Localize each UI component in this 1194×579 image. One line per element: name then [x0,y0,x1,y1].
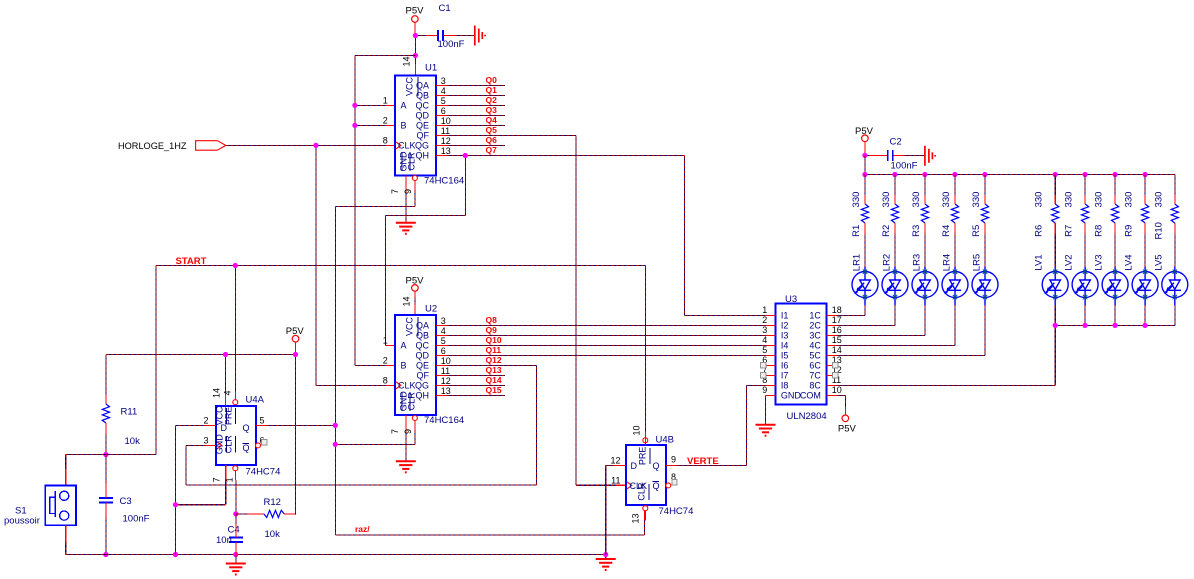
wire U1 Q7 to U3.I1 and U2.A [385,156,765,346]
svg-text:LR5: LR5 [972,254,983,271]
svg-text:Q5: Q5 [486,125,498,135]
svg-text:Q10: Q10 [486,335,502,345]
svg-text:14: 14 [211,388,221,398]
svg-text:Q3: Q3 [486,105,498,115]
wire LR1 bottom [864,306,866,316]
junction D-GND join [173,502,178,507]
wire LR2 bottom [894,306,896,326]
svg-text:4: 4 [441,86,446,96]
IC U4B 74HC74 box [615,435,694,521]
svg-text:QH: QH [416,390,430,400]
svg-text:11: 11 [611,476,620,486]
svg-text:LV1: LV1 [1034,254,1045,270]
junction U1.B [352,123,357,128]
svg-text:GND: GND [781,390,802,400]
wire R7 to LV2 [1084,234,1086,267]
LED LV4 [1124,254,1159,305]
svg-text:6: 6 [441,106,446,116]
svg-text:Q11: Q11 [486,345,502,355]
svg-text:10: 10 [441,116,451,126]
svg-text:7C: 7C [809,370,821,380]
svg-text:poussoir: poussoir [4,516,40,527]
svg-text:100nF: 100nF [123,514,150,525]
svg-text:C2: C2 [890,136,902,147]
svg-text:14: 14 [401,296,411,306]
svg-text:12: 12 [441,376,451,386]
wire U1 Q3 [446,115,505,117]
wire start node rail [66,455,156,469]
svg-text:17: 17 [832,315,842,325]
svg-text:LR2: LR2 [882,254,893,271]
svg-text:8: 8 [383,136,388,146]
svg-text:C3: C3 [120,496,132,507]
power rail symbol at C1 [475,26,485,46]
svg-text:Q15: Q15 [486,385,502,395]
junction rail-D riser [173,552,178,557]
power symbol P5V U2 [406,276,425,315]
wire U1 Q5 to U4B.CLK [446,136,615,486]
svg-text:2: 2 [383,116,388,126]
power rail symbol at C2 [925,146,935,166]
resistor R9 [1124,192,1149,237]
U4A pin numbers [203,388,264,482]
ground bottom rail [596,559,616,570]
wire R4 to LR4 [954,234,956,267]
IC U1 74HC164 box [395,63,464,191]
wire LR3 bottom [924,306,926,336]
svg-text:18: 18 [832,305,842,315]
wire U2 GND down [405,430,407,461]
svg-text:QB: QB [416,330,429,340]
svg-text:1C: 1C [809,310,821,320]
U4B pin numbers [610,425,676,523]
svg-text:Q8: Q8 [486,315,498,325]
svg-text:I2: I2 [781,320,789,330]
svg-text:Q12: Q12 [486,355,502,365]
wire gnd stub C4 ground [235,555,237,564]
junction rail x984 [982,172,987,177]
svg-text:9: 9 [403,189,413,194]
wire R5 top lead [984,175,986,195]
svg-text:D: D [221,423,228,433]
net labels Q0-Q7 [486,75,498,155]
svg-text:I4: I4 [781,340,789,350]
svg-text:Q2: Q2 [486,95,498,105]
junction P5V-serial branch [413,53,418,58]
svg-text:B: B [401,360,407,370]
svg-text:Q: Q [653,461,660,471]
junction START-U4A.PRE [233,263,238,268]
svg-text:U2: U2 [425,304,437,315]
svg-text:CLR: CLR [223,435,233,454]
svg-text:I3: I3 [781,330,789,340]
svg-text:CLR: CLR [407,392,417,411]
active-low bubble U4A PRE pin4 [233,400,238,405]
wire R1 top lead [864,175,866,195]
junction LV rail x1055 [1053,323,1058,328]
LED LV5 [1153,254,1188,305]
wire U2 Q11 to U3 [446,354,765,356]
svg-text:10k: 10k [125,436,141,447]
svg-text:VCC: VCC [405,317,415,337]
svg-text:CLR: CLR [637,482,647,501]
svg-text:10n: 10n [216,535,232,546]
wire U4A CLK from Q12 [186,365,536,485]
svg-text:1: 1 [762,305,767,315]
wire R2 to LR2 [894,234,896,267]
LED LV1 [1034,254,1069,305]
wire R5 to LR5 [984,234,986,267]
wire U3 GND [765,395,767,424]
svg-text:R12: R12 [264,497,281,508]
wire U1 Q0 [446,85,505,87]
svg-text:330: 330 [1094,192,1105,208]
resistor R11 [102,395,140,448]
wire U3 3C to LR3 [837,306,926,336]
wire LV2 bottom [1084,306,1086,326]
svg-text:R5: R5 [971,225,982,237]
wire U4A D to ground [176,425,206,554]
svg-text:330: 330 [881,192,892,208]
unconnected pin marker U3 7C [833,373,838,378]
svg-text:8: 8 [383,375,388,385]
svg-text:R11: R11 [121,407,138,418]
svg-text:9: 9 [403,429,413,434]
svg-text:7: 7 [390,429,400,434]
svg-text:100nF: 100nF [438,39,465,50]
resistor R1 [851,192,869,237]
svg-text:330: 330 [1064,192,1075,208]
svg-text:10: 10 [632,425,642,435]
wire U3 8C to LV rail [837,325,1056,385]
svg-text:ULN2804: ULN2804 [787,411,827,422]
svg-text:74HC164: 74HC164 [424,415,464,426]
wire U1 CLR to raz net [335,190,644,535]
active-low bubble U1 origin [412,176,417,181]
wire U3 2C to LR2 [837,306,896,326]
power symbol P5V top [406,6,425,36]
wire C3 bottom [105,517,107,555]
wire R10 top lead [1174,175,1176,195]
wire U2 CLR to raz net [335,430,415,444]
wire U2 Q10 to U3 [446,344,765,346]
junction rail x954 [952,172,957,177]
svg-text:R8: R8 [1094,225,1105,237]
svg-text:QC: QC [416,340,430,350]
svg-text:330: 330 [911,192,922,208]
wire U2 Q8 to U3 [446,324,765,326]
svg-text:16: 16 [832,325,842,335]
junction P5V-VCC riser [223,352,228,357]
wire LR4 bottom [954,306,956,346]
svg-text:R9: R9 [1124,225,1135,237]
wire R6 to LV1 [1054,234,1056,267]
LED LR1 [852,254,879,306]
junction C4-R12-CLR node [233,511,238,516]
svg-text:D: D [631,461,638,471]
svg-text:5: 5 [441,96,446,106]
svg-text:LR4: LR4 [942,254,953,271]
wire R7 top lead [1084,175,1086,195]
wire U2 Q12 stub [446,364,536,366]
wire U3 COM to P5V [837,395,846,407]
svg-text:4: 4 [223,390,233,395]
svg-text:U4A: U4A [246,395,265,406]
resistor R8 [1094,192,1119,237]
resistor R6 [1034,192,1059,237]
power symbol P5V U3 [838,415,857,434]
svg-text:A: A [401,340,407,350]
svg-text:U3: U3 [785,294,797,305]
wire P5V top to C1 and down to U1 pin14 [415,36,474,65]
svg-text:QE: QE [416,360,429,370]
active-low bubble U4A pin6 Qbar [256,443,261,448]
wire R9 to LV4 [1144,234,1146,267]
power symbol P5V mid [286,326,305,355]
wire U4A.Q to raz net [266,424,335,426]
junction rail-C4 [233,552,238,557]
svg-text:4C: 4C [809,340,821,350]
wire LV3 bottom [1114,306,1116,326]
capacitor C4 [216,525,243,547]
svg-text:CLR: CLR [407,152,417,171]
resistor R12 [248,497,295,540]
ground under C4 [226,564,246,575]
IC U4A 74HC74 box [206,395,280,481]
svg-text:R4: R4 [941,225,952,237]
svg-text:QF: QF [417,370,430,380]
svg-text:Q6: Q6 [486,135,498,145]
svg-text:330: 330 [971,192,982,208]
svg-text:R2: R2 [881,225,892,237]
svg-text:12: 12 [610,456,620,466]
ground under U1 [396,223,416,234]
junction rail x894 [892,172,897,177]
wire R6 top lead [1054,175,1056,195]
svg-text:QH: QH [416,151,430,161]
resistor R10 [1153,192,1178,240]
resistor R5 [971,192,989,237]
net labels Q8-Q15 [486,315,502,395]
svg-text:P5V: P5V [838,423,857,434]
wire U2 Q15 [446,394,505,396]
U3 pin names [781,310,821,400]
svg-text:HORLOGE_1HZ: HORLOGE_1HZ [118,141,187,152]
svg-text:10: 10 [832,385,842,395]
svg-text:74HC74: 74HC74 [246,467,281,478]
svg-text:CLK: CLK [398,141,416,151]
pushbutton S1 [4,486,76,542]
svg-text:3: 3 [762,325,767,335]
svg-text:74HC74: 74HC74 [659,506,694,517]
svg-text:2: 2 [203,416,208,426]
active-low bubble U4B pin8 Qbar [666,483,671,488]
U4A pin names [214,406,249,454]
svg-text:7: 7 [390,189,400,194]
capacitor C2 [888,136,918,171]
svg-text:Q9: Q9 [486,325,498,335]
svg-text:6: 6 [441,346,446,356]
svg-text:10: 10 [441,356,451,366]
svg-text:100nF: 100nF [891,160,918,171]
svg-text:U1: U1 [425,63,437,74]
svg-text:R6: R6 [1034,225,1045,237]
wire P5V serial rail [355,56,416,366]
svg-text:QA: QA [416,320,429,330]
svg-text:6C: 6C [809,360,821,370]
active-low bubble U4B pin13 CLR [643,506,648,511]
active-low bubble U4A pin1 CLR [233,466,238,471]
junction P5V circle mid [293,352,298,357]
svg-text:Q4: Q4 [486,115,498,125]
svg-text:2: 2 [383,355,388,365]
svg-text:Q: Q [653,481,660,491]
svg-text:QF: QF [417,131,430,141]
junction U1.A [352,103,357,108]
svg-text:4: 4 [762,335,767,345]
wire ground rail [106,555,606,560]
svg-text:QB: QB [416,91,429,101]
capacitor C1 [438,3,465,50]
wire R11 bottom to node [105,434,107,455]
active-low bubble U2 origin [412,416,417,421]
unconnected pin marker U3 6C [833,363,838,368]
svg-text:9: 9 [671,454,676,464]
svg-text:QC: QC [416,101,430,111]
wire LV common rail [1055,324,1175,326]
svg-text:13: 13 [441,386,451,396]
svg-text:C4: C4 [228,525,240,536]
wire U4A CLR to C4 node [235,480,237,514]
junction raz-Q [333,423,338,428]
svg-text:1: 1 [383,96,388,106]
svg-text:A: A [401,101,407,111]
U2 pin names [398,317,430,412]
svg-text:I7: I7 [781,370,789,380]
svg-text:C1: C1 [439,3,451,14]
wire C4 top [235,514,237,524]
svg-text:R3: R3 [911,225,922,237]
svg-text:3: 3 [203,436,208,446]
svg-text:1: 1 [383,335,388,345]
wire LV5 bottom [1174,306,1176,326]
U2 pin numbers [383,296,451,434]
junction rail x864 [862,172,867,177]
resistor R4 [941,192,959,237]
junction C3 gnd [103,552,108,557]
svg-text:330: 330 [1153,192,1164,208]
svg-text:QG: QG [415,380,429,390]
wire U2 Q14 [446,384,505,386]
svg-text:COM: COM [800,390,821,400]
svg-text:14: 14 [401,56,411,66]
junction rail end [603,552,608,557]
svg-text:raz/: raz/ [355,524,370,534]
svg-text:5C: 5C [809,350,821,360]
ground under U3 [756,425,776,436]
svg-text:2C: 2C [809,320,821,330]
wire U1 Q2 [446,105,505,107]
svg-text:LR3: LR3 [912,254,923,271]
svg-text:CLK: CLK [398,380,416,390]
power symbol P5V LED [855,126,874,155]
svg-text:VCC: VCC [405,77,415,97]
junction LV rail x1085 [1083,323,1088,328]
junction rail x1085 [1083,172,1088,177]
svg-text:3: 3 [441,76,446,86]
junction P5V LED junction [862,153,867,158]
wire U1 Q4 [446,125,505,127]
svg-text:I1: I1 [781,310,789,320]
unconnected pin marker U4B pin8 [672,480,677,485]
svg-text:7: 7 [212,477,222,482]
svg-text:LV3: LV3 [1094,254,1105,270]
LED LV2 [1064,254,1099,305]
svg-text:U4B: U4B [656,435,674,446]
wire R1 to LR1 [864,234,866,267]
junction raz-U2CLR [333,442,338,447]
wire U2 P5V stub [414,297,416,305]
svg-text:2: 2 [762,315,767,325]
svg-text:12: 12 [441,136,451,146]
junction rail x1115 [1113,172,1118,177]
svg-text:P5V: P5V [406,6,425,17]
wire S1 bottom to gnd rail [66,542,106,555]
svg-text:3: 3 [441,316,446,326]
svg-text:11: 11 [441,126,450,136]
wire C2 feed [865,154,925,156]
unconnected pin marker U3 I6 [761,363,766,368]
resistor R7 [1064,192,1089,237]
junction rail x1145 [1143,172,1148,177]
svg-text:10k: 10k [265,529,281,540]
U1 pin names [398,77,430,172]
resistor R2 [881,192,899,237]
svg-text:LV4: LV4 [1124,254,1135,270]
svg-text:11: 11 [441,366,450,376]
wire R2 top lead [894,175,896,195]
U4B pin names [630,447,660,501]
svg-text:8C: 8C [809,380,821,390]
svg-text:Q7: Q7 [486,145,498,155]
junction P5V-C1 [413,33,418,38]
svg-text:5: 5 [260,416,265,426]
wire P5V rail to R11 R12 U4A.VCC [106,355,296,515]
capacitor C3 [99,496,150,525]
wire R10 to LV5 [1174,234,1176,267]
wire R8 top lead [1114,175,1116,195]
svg-text:5: 5 [441,336,446,346]
svg-text:LR1: LR1 [852,254,863,271]
wire U3 5C to LR5 [837,306,986,356]
junction rail x1055 [1053,172,1058,177]
LED LR5 [972,254,999,306]
svg-text:I6: I6 [781,360,789,370]
wire R4 top lead [954,175,956,195]
LED LR4 [942,254,969,306]
wire R9 top lead [1144,175,1146,195]
wire R12 left lead [236,513,249,515]
wire U1 Q1 [446,95,505,97]
svg-text:I5: I5 [781,350,789,360]
wire U2 Q9 to U3 [446,334,765,336]
IC U3 ULN2804 box [766,294,837,422]
IC U2 74HC164 box [395,304,464,431]
wire R11 top [105,355,107,395]
input flag HORLOGE_1HZ [118,141,226,152]
svg-text:Q: Q [243,423,250,433]
svg-text:13: 13 [631,513,641,523]
